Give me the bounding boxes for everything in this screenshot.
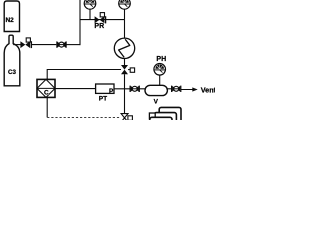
main wire cell to PT — [55, 88, 96, 90]
heat exchanger — [114, 38, 134, 58]
metering valve below HX — [121, 65, 135, 74]
svg-text:PR: PR — [94, 23, 104, 30]
main wire PT to vessel — [114, 88, 146, 90]
trap stack back plate — [159, 107, 181, 123]
signal wire dashed — [46, 97, 48, 117]
svg-text:Vent: Vent — [201, 86, 215, 95]
regulator valve on C3 line — [20, 38, 31, 48]
wire valve to ball valve — [32, 44, 57, 46]
cylinder C3 — [4, 35, 20, 86]
wire ball valve to riser — [66, 44, 80, 46]
riser wire to bottom valve — [124, 89, 126, 114]
pressure gauge PI1 — [84, 0, 96, 9]
wire HX to valve — [124, 58, 126, 65]
transducer PT box — [96, 84, 114, 93]
wire C3 to valve — [13, 44, 20, 46]
riser wire to heat exchanger — [124, 20, 126, 39]
pressure gauge PI2 — [119, 0, 131, 9]
trap stack front plate — [150, 117, 172, 125]
ball valve main line — [130, 86, 139, 92]
bottom drain valve — [121, 114, 132, 122]
svg-text:P: P — [109, 88, 114, 95]
svg-text:PH: PH — [156, 56, 166, 63]
svg-text:C3: C3 — [8, 69, 16, 76]
vent arrow — [181, 89, 193, 91]
gauge stem — [89, 9, 91, 20]
wire valve to main line — [124, 74, 126, 89]
wire top manifold — [80, 19, 125, 21]
cylinder N2 — [4, 1, 19, 32]
riser wire x=80 — [79, 0, 81, 45]
ball valve vent — [172, 86, 181, 92]
pressure regulator PR — [95, 13, 106, 24]
svg-text:V: V — [154, 98, 159, 105]
gauge stem — [124, 9, 126, 20]
pressure gauge PH — [154, 64, 166, 76]
vessel V — [145, 85, 167, 95]
svg-text:PT: PT — [99, 95, 107, 102]
wire vessel to vent valve — [167, 88, 172, 90]
svg-text:C: C — [44, 90, 49, 97]
gauge PH stem — [159, 75, 161, 85]
trap stack middle plate — [154, 113, 176, 125]
svg-text:N2: N2 — [5, 17, 14, 24]
ball valve on C3 line — [57, 41, 66, 47]
trap stack tab — [149, 113, 155, 119]
cell C — [37, 79, 55, 97]
wire cell top line — [47, 70, 121, 80]
